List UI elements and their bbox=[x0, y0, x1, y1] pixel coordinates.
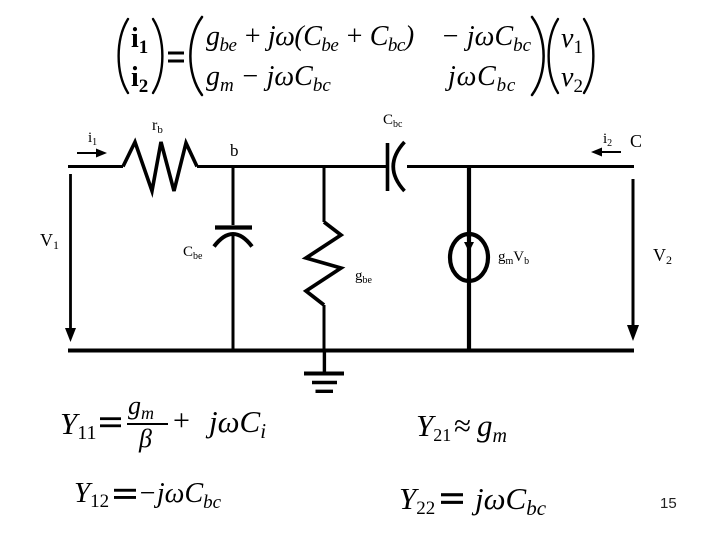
wire: ground stem bbox=[323, 351, 326, 372]
equation: Y22 = jwCbc bbox=[399, 481, 435, 520]
page number bbox=[660, 495, 677, 512]
wire: top rail left segment (input to rb) bbox=[68, 165, 123, 168]
current source gmVb (ellipse) bbox=[450, 234, 488, 281]
paren: current vector right bbox=[153, 19, 162, 93]
wire: Cbe to bottom rail bbox=[232, 234, 235, 351]
wire: top rail from rb to Cbc left plate bbox=[197, 165, 386, 168]
equation: Y matrix row1 col2 bbox=[441, 21, 531, 57]
arrow V1 (port 1 voltage) bbox=[69, 174, 72, 330]
current source internal arrow bbox=[464, 242, 474, 252]
wire: node b vertical to Cbe bbox=[232, 167, 235, 226]
svg-text:gmVb: gmVb bbox=[498, 249, 529, 267]
equals sign of Y12 equation bbox=[114, 489, 136, 499]
svg-text:i1: i1 bbox=[88, 130, 97, 148]
svg-text:gbe: gbe bbox=[355, 268, 373, 286]
equals sign of matrix equation bbox=[168, 52, 184, 63]
svg-text:V2: V2 bbox=[653, 245, 672, 267]
equation: Y matrix row2 col2 bbox=[448, 61, 516, 97]
arrow i1 (current into port 1) bbox=[77, 152, 99, 154]
resistor rb (horizontal zigzag) bbox=[123, 142, 197, 191]
wire: top rail from Cbc to collector terminal bbox=[407, 165, 634, 168]
paren: current vector left bbox=[119, 19, 128, 93]
ground symbol bbox=[304, 372, 344, 376]
wire: dependent source branch (passes through source) bbox=[467, 167, 471, 352]
svg-text:Cbc: Cbc bbox=[383, 112, 403, 130]
svg-text:C: C bbox=[630, 131, 642, 151]
equation: Y12 = -jwCbc bbox=[74, 477, 109, 513]
svg-text:Cbe: Cbe bbox=[183, 244, 203, 262]
paren: Y matrix left bbox=[190, 17, 202, 95]
equation: Y21 ~ gm bbox=[416, 408, 451, 446]
arrow i2 (current into port 2) bbox=[599, 151, 621, 153]
svg-text:i2: i2 bbox=[603, 131, 612, 149]
paren: voltage vector left bbox=[549, 19, 558, 93]
arrow V2 (port 2 voltage) bbox=[632, 179, 635, 327]
capacitor Cbc (straight plate + curved plate) on top rail bbox=[386, 143, 390, 191]
capacitor Cbe (straight plate + curved plate) bbox=[215, 225, 252, 229]
svg-text:rb: rb bbox=[152, 117, 163, 136]
equation: Y matrix row2 col1 bbox=[206, 61, 331, 97]
svg-text:V1: V1 bbox=[40, 230, 59, 252]
svg-text:b: b bbox=[230, 141, 239, 160]
wire: bottom rail bbox=[68, 349, 634, 353]
wire: gbe branch top bbox=[323, 167, 326, 223]
equals sign of Y11 equation bbox=[100, 417, 121, 427]
wire: gbe branch bottom bbox=[323, 305, 326, 351]
equation: Y11 = gm/beta + jwCi bbox=[60, 406, 97, 445]
equals sign of Y22 equation bbox=[441, 493, 463, 504]
equation: current vector entries i1 i2 bbox=[131, 23, 148, 59]
equation: Y matrix row1 col1 bbox=[206, 21, 414, 57]
paren: voltage vector right bbox=[584, 19, 593, 93]
resistor gbe (vertical zigzag) bbox=[306, 222, 341, 305]
equation: voltage vector entries v1 v2 bbox=[561, 23, 583, 59]
paren: Y matrix right bbox=[532, 17, 544, 95]
